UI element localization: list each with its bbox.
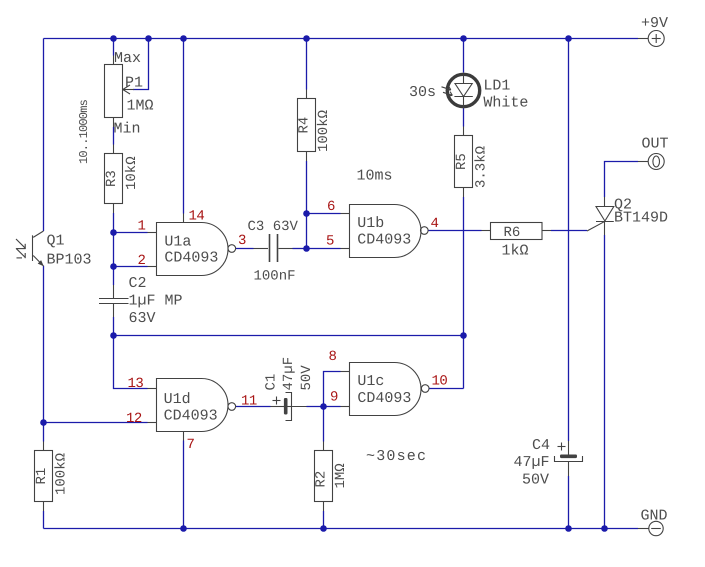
pin stub C3 left	[254, 248, 269, 250]
svg-text:BP103: BP103	[47, 252, 92, 269]
wire top +9V rail	[44, 38, 639, 40]
svg-text:C2: C2	[129, 275, 147, 292]
terminal +9V	[638, 31, 664, 47]
pin stub R4 top	[306, 90, 308, 99]
wire pin3 to C3	[236, 248, 254, 250]
wire R4 bottom column	[306, 161, 308, 249]
junction pin1 node	[110, 229, 117, 236]
svg-text:8: 8	[329, 349, 337, 365]
pin stub R1 top	[43, 442, 45, 451]
wire feedback row	[114, 335, 464, 337]
wire R4 top lead	[306, 39, 308, 90]
pin stub R5 bottom	[463, 188, 465, 198]
junction pin2 node	[110, 263, 117, 270]
resistor R5	[455, 136, 473, 188]
wire pin12 row	[44, 422, 148, 424]
capacitor C1	[273, 393, 292, 421]
pin stub R5 top	[463, 127, 465, 136]
svg-text:3: 3	[238, 233, 246, 249]
wire P1 top lead	[113, 39, 115, 56]
junction pin14 top	[180, 35, 187, 42]
thyristor Q2	[587, 207, 614, 232]
wire R1 bottom to GND rail	[43, 511, 45, 529]
wire C1 to R2 node	[307, 406, 324, 408]
wire pin14 column	[183, 39, 185, 214]
svg-text:4: 4	[431, 216, 439, 232]
pin stub C2 top	[113, 285, 115, 299]
svg-text:1MΩ: 1MΩ	[127, 98, 154, 115]
svg-text:Q1: Q1	[47, 233, 65, 250]
pin stub P1 top	[113, 56, 115, 65]
junction C4 rail top	[565, 35, 572, 42]
junction pin5 C3 node	[303, 245, 310, 252]
resistor R4	[298, 99, 316, 152]
svg-text:OUT: OUT	[642, 136, 669, 153]
svg-text:1: 1	[138, 219, 146, 235]
svg-text:100kΩ: 100kΩ	[54, 453, 70, 495]
nand gate U1a	[157, 223, 236, 276]
capacitor C3	[270, 234, 278, 262]
wire R2 bottom lead	[323, 511, 325, 529]
nand gate U1b	[350, 205, 429, 258]
svg-text:100nF: 100nF	[254, 269, 296, 285]
svg-text:100kΩ: 100kΩ	[316, 110, 332, 152]
pin stub C2 bottom	[113, 304, 115, 318]
svg-text:GND: GND	[641, 508, 668, 525]
pin stub R2 top	[323, 442, 325, 451]
junction pin6 node	[303, 210, 310, 217]
wire pin4 to R6	[429, 230, 482, 232]
wire +9V to C4 rail	[568, 39, 570, 442]
svg-text:7: 7	[187, 437, 195, 453]
LED LD1	[442, 74, 480, 108]
phototransistor Q1	[16, 231, 44, 266]
svg-text:14: 14	[189, 209, 205, 225]
svg-text:R6: R6	[504, 225, 521, 241]
svg-text:50V: 50V	[299, 365, 315, 391]
svg-text:LD1: LD1	[483, 78, 510, 95]
pin stub 14	[183, 214, 185, 223]
wire pin5 lead	[307, 248, 341, 250]
junction C1 R2 pin9 node	[320, 403, 327, 410]
svg-text:C4: C4	[532, 437, 550, 454]
capacitor C4	[555, 441, 583, 476]
svg-text:BT149D: BT149D	[614, 210, 668, 227]
svg-text:47µF: 47µF	[514, 454, 550, 471]
svg-text:Min: Min	[114, 121, 141, 138]
pin stub 12	[148, 422, 157, 424]
svg-text:R4: R4	[297, 117, 313, 134]
svg-text:U1a: U1a	[164, 234, 191, 251]
wire P1 to R3	[113, 127, 115, 145]
svg-text:50V: 50V	[522, 472, 549, 489]
svg-text:R5: R5	[454, 153, 470, 170]
wire LED bottom to R5	[463, 109, 465, 127]
wire pin6 lead	[307, 213, 341, 215]
junction R4 top	[303, 35, 310, 42]
terminal GND	[638, 521, 663, 535]
svg-text:3.3kΩ: 3.3kΩ	[473, 146, 489, 188]
pin stub R2 bottom	[323, 502, 325, 512]
svg-text:C3 63V: C3 63V	[248, 219, 299, 235]
wire Q2 cathode column	[604, 235, 606, 529]
svg-text:R3: R3	[104, 170, 120, 187]
wire R5 bottom column down to pin10 row	[463, 197, 465, 389]
pin stub C3 right	[279, 248, 293, 250]
nand gate U1c	[350, 363, 430, 416]
svg-text:CD4093: CD4093	[164, 408, 218, 425]
wire pin8 lead and riser	[324, 372, 341, 407]
capacitor C2	[99, 299, 129, 304]
wire LED top lead	[463, 39, 465, 73]
pin stub R3 bottom	[113, 204, 115, 214]
junction feedback right node	[460, 332, 467, 339]
pin stub Q2 cathode	[604, 221, 606, 235]
wire R3 bottom to C2 top	[113, 213, 115, 285]
pin stub R3 top	[113, 145, 115, 154]
svg-text:10ms: 10ms	[357, 168, 393, 185]
junction Q1 R1 pin12 node	[40, 419, 47, 426]
resistor R3	[105, 154, 123, 204]
pin stub C1 right	[288, 406, 307, 408]
svg-text:CD4093: CD4093	[357, 232, 411, 249]
pin stub 9	[341, 406, 350, 408]
potentiometer P1	[105, 65, 135, 118]
svg-text:U1c: U1c	[357, 373, 384, 390]
pin stub Q2 anode	[604, 197, 606, 207]
wire pin7 column	[183, 441, 185, 529]
pin stub R6 left	[482, 230, 491, 232]
pin stub R6 right	[542, 230, 551, 232]
svg-text:13: 13	[128, 376, 144, 392]
wire C3 to R4 node	[293, 248, 307, 250]
svg-text:2: 2	[138, 253, 146, 269]
svg-text:1µF MP: 1µF MP	[129, 293, 183, 310]
junction C2 feedback node	[110, 332, 117, 339]
wire left rail upper to Q1 collector	[43, 39, 45, 232]
svg-text:White: White	[483, 95, 528, 112]
svg-text:47µF: 47µF	[281, 357, 297, 391]
terminal OUT	[638, 154, 664, 170]
wire pin13 drop and lead	[114, 336, 148, 389]
svg-text:R2: R2	[314, 471, 330, 488]
svg-text:CD4093: CD4093	[357, 390, 411, 407]
pin stub 5	[341, 248, 350, 250]
wire R6 to Q2 gate	[551, 230, 587, 232]
junction wiper riser top	[145, 35, 152, 42]
resistor R1	[35, 451, 53, 502]
pin stub R1 bottom	[43, 502, 45, 512]
resistor R2	[315, 451, 333, 502]
pin stub 1	[148, 232, 157, 234]
wire bottom GND rail	[44, 528, 639, 530]
pin stub 7	[183, 432, 185, 441]
svg-text:CD4093: CD4093	[164, 250, 218, 267]
svg-text:11: 11	[241, 394, 257, 410]
junction pin7 bottom	[180, 525, 187, 532]
junction C4 bottom	[565, 525, 572, 532]
wire C4 bottom lead	[568, 476, 570, 529]
svg-text:C1: C1	[263, 374, 279, 391]
pin stub R4 bottom	[306, 152, 308, 162]
wire P1 wiper riser	[133, 39, 149, 90]
svg-text:+9V: +9V	[641, 15, 668, 32]
svg-text:6: 6	[327, 199, 335, 215]
resistor R6	[491, 223, 543, 240]
svg-text:1MΩ: 1MΩ	[333, 463, 349, 488]
svg-text:30s: 30s	[409, 84, 436, 101]
svg-text:R1: R1	[34, 468, 50, 485]
svg-text:9: 9	[330, 390, 338, 406]
wire pin9 lead	[324, 406, 341, 408]
svg-text:~30sec: ~30sec	[366, 448, 427, 465]
svg-text:10: 10	[432, 374, 448, 390]
wire C2 bottom to feedback node	[113, 317, 115, 336]
junction R2 bottom	[320, 525, 327, 532]
junction Q2 cathode bottom	[601, 525, 608, 532]
wire Q1 emitter down to R1	[43, 266, 45, 442]
pin stub P1 bottom	[113, 118, 115, 128]
svg-text:10..1000ms: 10..1000ms	[77, 99, 91, 164]
svg-text:10kΩ: 10kΩ	[124, 156, 140, 190]
svg-text:P1: P1	[125, 75, 143, 92]
wire pin10 lead	[429, 388, 464, 390]
svg-text:U1d: U1d	[164, 391, 191, 408]
nand gate U1d	[157, 379, 236, 432]
pin stub 8	[341, 371, 350, 373]
svg-text:Max: Max	[114, 50, 141, 67]
wire Q2 anode to OUT row	[605, 162, 639, 198]
junction P1 top	[110, 35, 117, 42]
pin stub 2	[148, 266, 157, 268]
svg-text:63V: 63V	[129, 310, 156, 327]
wire R2 top lead	[323, 407, 325, 442]
wire pin11 to C1	[236, 406, 271, 408]
svg-text:1kΩ: 1kΩ	[502, 243, 529, 260]
svg-text:12: 12	[126, 411, 142, 427]
svg-text:U1b: U1b	[357, 215, 384, 232]
junction LED top	[460, 35, 467, 42]
pin stub 13	[148, 388, 157, 390]
svg-text:5: 5	[326, 234, 334, 250]
pin stub C1 left	[271, 406, 284, 408]
pin stub 6	[341, 213, 350, 215]
wire pin2 lead	[114, 266, 148, 268]
wire pin1 lead	[114, 232, 148, 234]
